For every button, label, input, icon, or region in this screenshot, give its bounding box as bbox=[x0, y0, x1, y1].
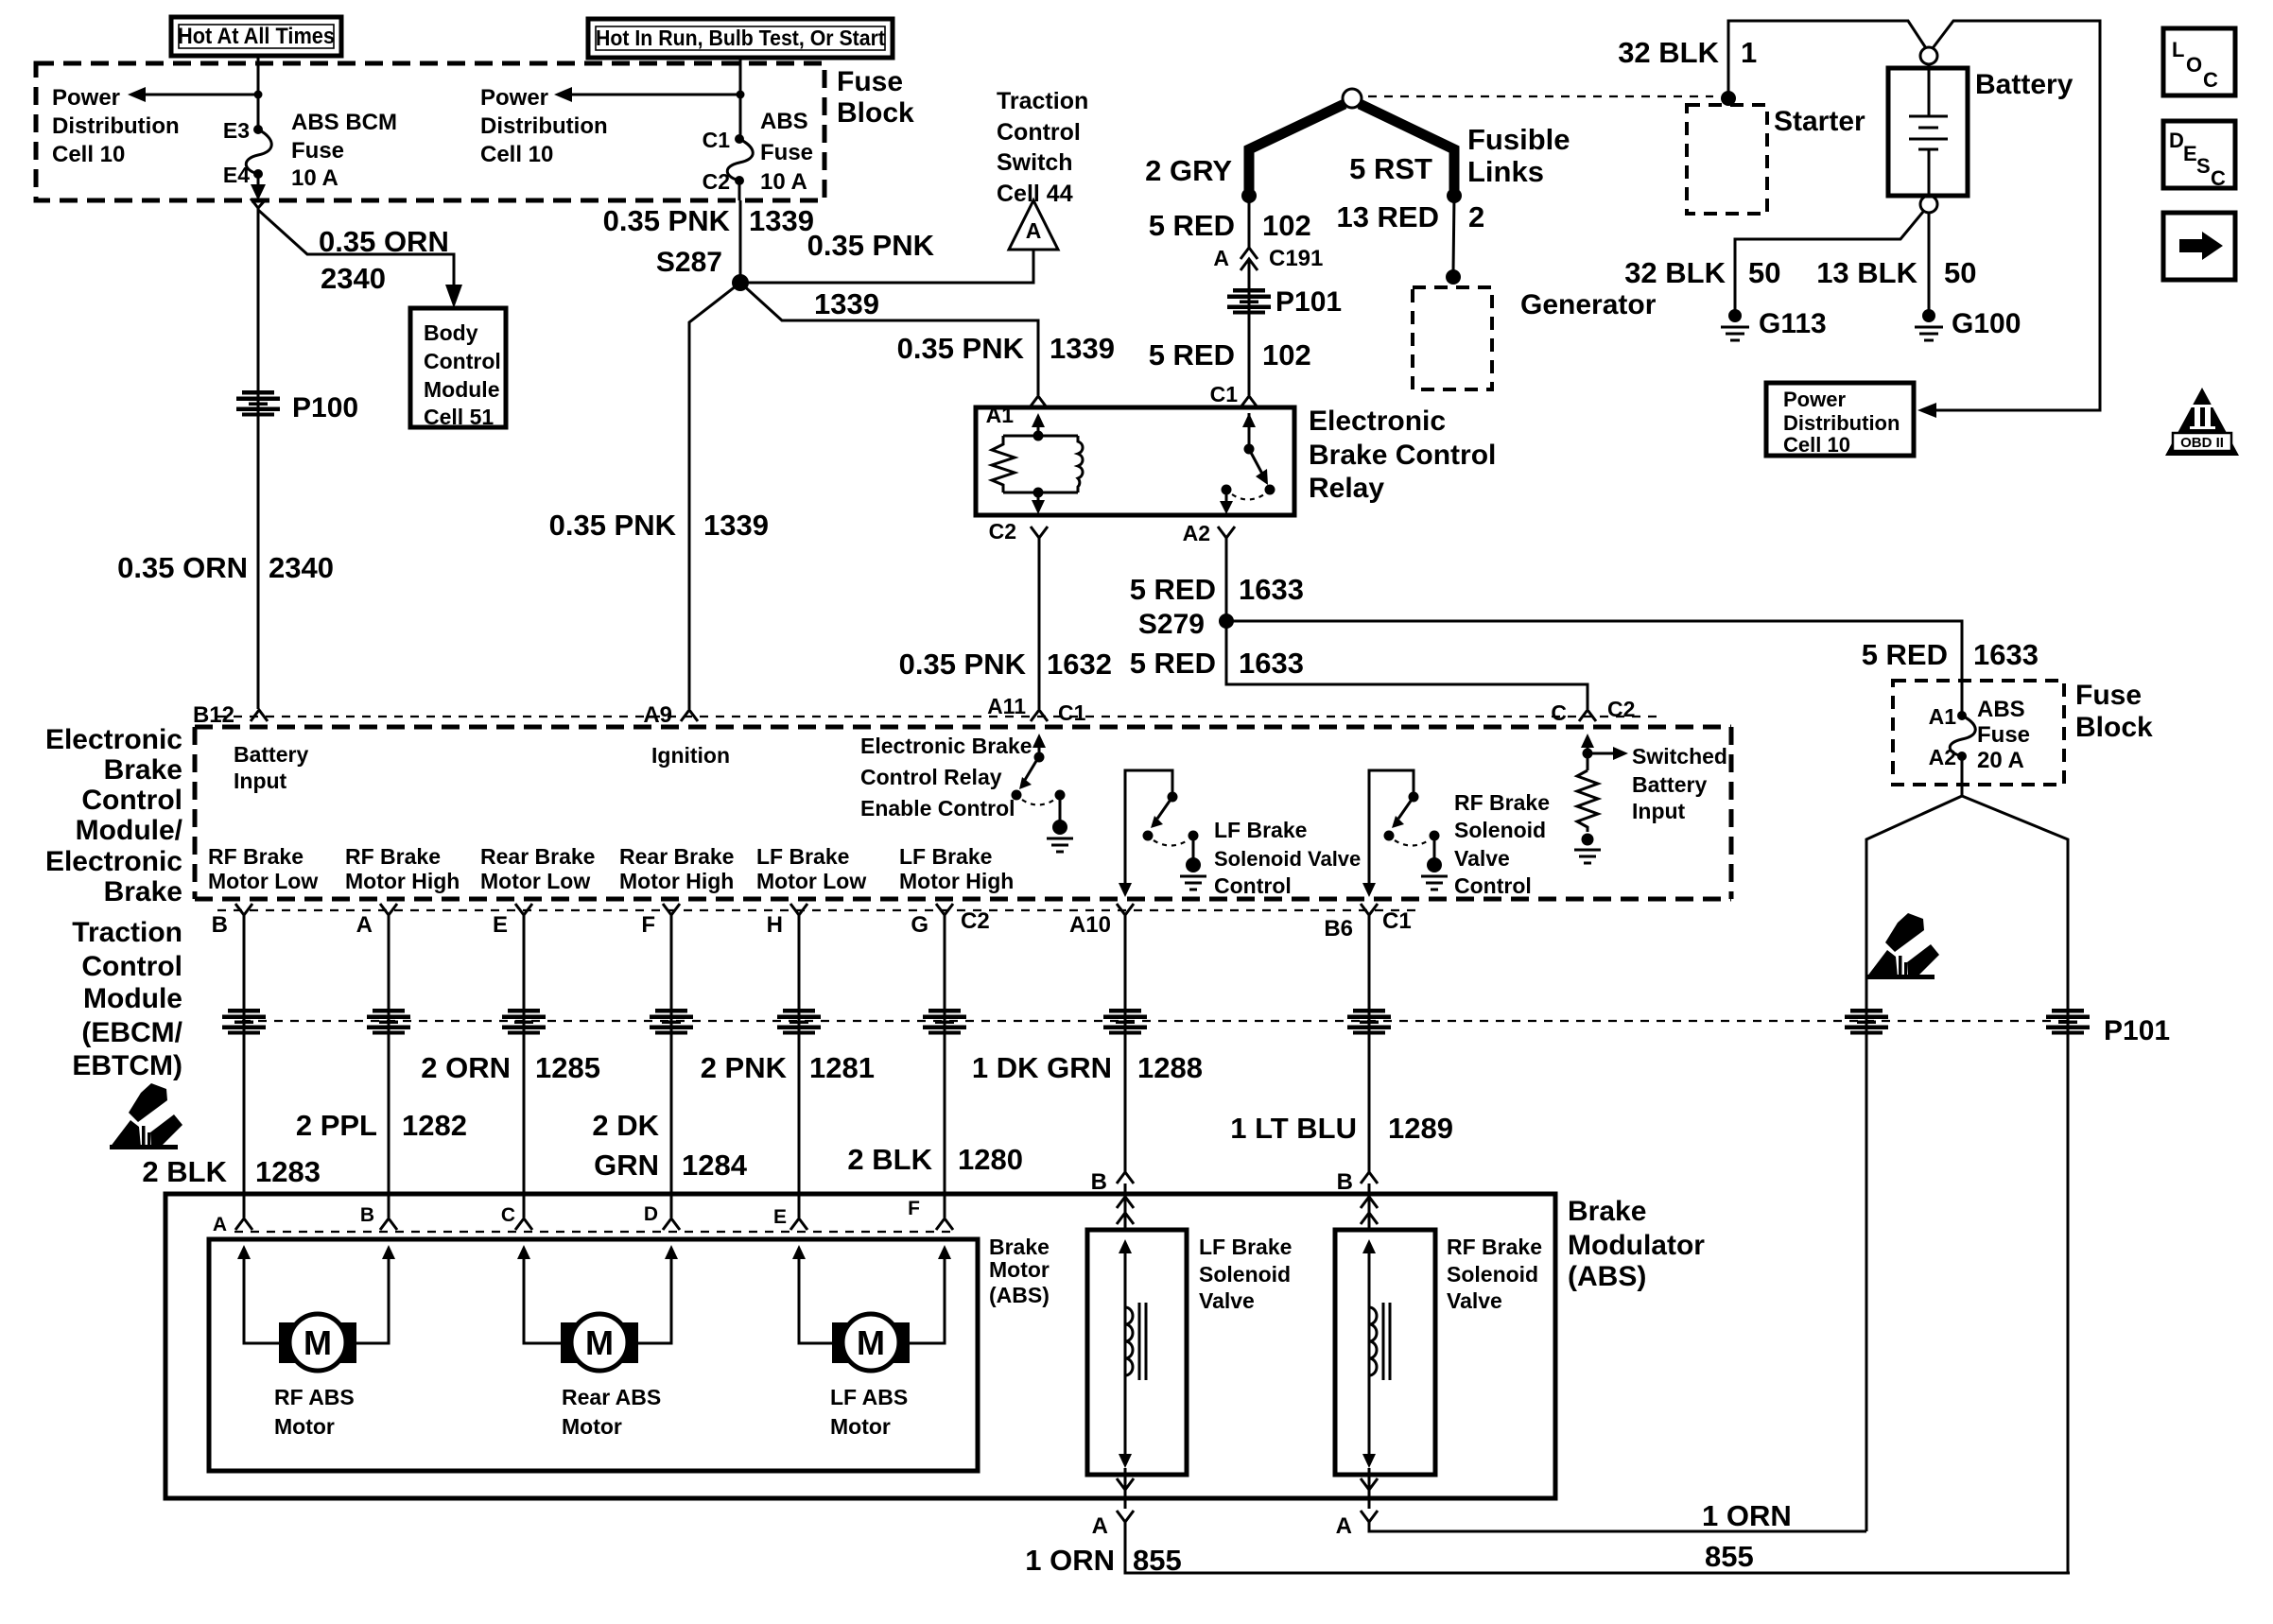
svg-text:G: G bbox=[911, 912, 928, 938]
svg-text:S: S bbox=[2196, 154, 2211, 178]
svg-text:S287: S287 bbox=[656, 247, 722, 278]
svg-text:Motor: Motor bbox=[830, 1414, 891, 1439]
svg-text:A1: A1 bbox=[1929, 704, 1957, 729]
svg-text:Solenoid Valve: Solenoid Valve bbox=[1214, 847, 1361, 871]
svg-text:Motor Low: Motor Low bbox=[480, 869, 590, 893]
svg-text:5 RED: 5 RED bbox=[1149, 338, 1235, 371]
svg-text:50: 50 bbox=[1944, 256, 1976, 289]
svg-text:B: B bbox=[1091, 1169, 1107, 1195]
svg-text:A: A bbox=[1336, 1513, 1352, 1539]
svg-text:OBD II: OBD II bbox=[2180, 435, 2224, 451]
svg-text:1339: 1339 bbox=[1050, 332, 1115, 365]
svg-text:S279: S279 bbox=[1138, 609, 1205, 640]
svg-text:Motor Low: Motor Low bbox=[208, 869, 318, 893]
svg-text:Electronic: Electronic bbox=[45, 724, 182, 755]
svg-text:Switch: Switch bbox=[997, 149, 1073, 176]
svg-text:Fuse: Fuse bbox=[760, 140, 813, 165]
svg-text:Traction: Traction bbox=[72, 917, 182, 948]
svg-text:Control: Control bbox=[997, 119, 1081, 146]
svg-text:1633: 1633 bbox=[1239, 573, 1304, 606]
svg-text:C: C bbox=[1551, 700, 1567, 725]
svg-text:C: C bbox=[501, 1204, 515, 1226]
svg-text:Rear Brake: Rear Brake bbox=[480, 844, 595, 869]
svg-text:0.35 PNK: 0.35 PNK bbox=[549, 509, 677, 542]
svg-text:Fuse: Fuse bbox=[291, 138, 344, 164]
svg-text:F: F bbox=[641, 912, 655, 938]
svg-text:Cell 51: Cell 51 bbox=[424, 405, 494, 429]
svg-text:5 RED: 5 RED bbox=[1149, 209, 1235, 242]
svg-text:1285: 1285 bbox=[535, 1051, 600, 1084]
svg-text:C2: C2 bbox=[703, 169, 730, 194]
svg-text:2 BLK: 2 BLK bbox=[847, 1143, 932, 1176]
svg-text:2 PNK: 2 PNK bbox=[701, 1051, 788, 1084]
svg-text:10 A: 10 A bbox=[760, 169, 807, 195]
svg-text:RF Brake: RF Brake bbox=[208, 844, 304, 869]
svg-text:0.35 PNK: 0.35 PNK bbox=[897, 332, 1025, 365]
svg-text:2 PPL: 2 PPL bbox=[296, 1109, 377, 1142]
svg-text:(ABS): (ABS) bbox=[989, 1283, 1050, 1307]
svg-text:Control Relay: Control Relay bbox=[860, 765, 1002, 789]
svg-text:(ABS): (ABS) bbox=[1568, 1261, 1646, 1292]
svg-text:C191: C191 bbox=[1269, 246, 1323, 271]
svg-text:Valve: Valve bbox=[1454, 846, 1510, 871]
svg-text:A9: A9 bbox=[643, 702, 672, 728]
svg-text:A: A bbox=[1213, 246, 1229, 270]
svg-text:Valve: Valve bbox=[1199, 1288, 1255, 1313]
svg-text:32 BLK: 32 BLK bbox=[1624, 256, 1726, 289]
svg-text:Hot At All Times: Hot At All Times bbox=[178, 24, 335, 49]
svg-text:C1: C1 bbox=[703, 128, 731, 152]
svg-text:1339: 1339 bbox=[703, 509, 769, 542]
svg-text:Control: Control bbox=[1454, 873, 1532, 898]
svg-text:Valve: Valve bbox=[1447, 1288, 1502, 1313]
svg-text:102: 102 bbox=[1262, 338, 1311, 371]
svg-text:(EBCM/: (EBCM/ bbox=[81, 1017, 182, 1048]
svg-text:Module: Module bbox=[83, 983, 182, 1014]
svg-text:O: O bbox=[2186, 53, 2202, 77]
svg-text:Body: Body bbox=[424, 320, 478, 345]
svg-text:1281: 1281 bbox=[809, 1051, 875, 1084]
svg-text:Ignition: Ignition bbox=[651, 743, 730, 768]
svg-text:Links: Links bbox=[1467, 155, 1544, 188]
svg-text:C1: C1 bbox=[1382, 908, 1412, 934]
svg-text:Motor High: Motor High bbox=[619, 869, 734, 893]
svg-text:LF Brake: LF Brake bbox=[756, 844, 849, 869]
svg-text:Control: Control bbox=[81, 951, 182, 982]
svg-text:0.35 PNK: 0.35 PNK bbox=[603, 204, 731, 237]
svg-text:C2: C2 bbox=[989, 519, 1016, 544]
svg-text:Solenoid: Solenoid bbox=[1199, 1262, 1291, 1287]
svg-text:1288: 1288 bbox=[1137, 1051, 1203, 1084]
svg-text:1 LT BLU: 1 LT BLU bbox=[1230, 1112, 1357, 1145]
svg-text:M: M bbox=[304, 1323, 332, 1362]
svg-text:Brake: Brake bbox=[989, 1235, 1050, 1259]
svg-text:C: C bbox=[2211, 166, 2226, 190]
svg-text:Motor: Motor bbox=[562, 1414, 622, 1439]
svg-text:1633: 1633 bbox=[1239, 647, 1304, 680]
svg-text:0.35 ORN: 0.35 ORN bbox=[117, 551, 248, 584]
svg-text:10 A: 10 A bbox=[291, 165, 338, 191]
svg-text:1280: 1280 bbox=[958, 1143, 1023, 1176]
svg-text:D: D bbox=[644, 1203, 658, 1225]
svg-text:RF Brake: RF Brake bbox=[1447, 1235, 1542, 1259]
svg-text:Input: Input bbox=[234, 769, 287, 793]
svg-text:0.35 PNK: 0.35 PNK bbox=[899, 648, 1027, 681]
svg-text:Power: Power bbox=[480, 85, 548, 111]
svg-text:E: E bbox=[773, 1206, 787, 1228]
svg-text:Motor High: Motor High bbox=[899, 869, 1014, 893]
svg-text:Fusible: Fusible bbox=[1467, 123, 1570, 156]
svg-text:Power: Power bbox=[1783, 388, 1846, 411]
svg-text:1339: 1339 bbox=[749, 204, 814, 237]
svg-text:Electronic: Electronic bbox=[45, 846, 182, 877]
svg-text:RF Brake: RF Brake bbox=[1454, 790, 1550, 815]
svg-text:Distribution: Distribution bbox=[480, 113, 608, 139]
svg-text:Modulator: Modulator bbox=[1568, 1230, 1705, 1261]
svg-text:Solenoid: Solenoid bbox=[1454, 818, 1546, 842]
svg-text:Starter: Starter bbox=[1774, 106, 1865, 137]
svg-text:Rear Brake: Rear Brake bbox=[619, 844, 734, 869]
svg-text:P101: P101 bbox=[2104, 1015, 2170, 1046]
svg-text:E: E bbox=[2183, 142, 2197, 165]
svg-text:Generator: Generator bbox=[1520, 289, 1657, 320]
svg-text:L: L bbox=[2172, 38, 2184, 61]
svg-text:Relay: Relay bbox=[1309, 473, 1384, 504]
svg-text:0.35 ORN: 0.35 ORN bbox=[319, 225, 449, 258]
svg-text:2 DK: 2 DK bbox=[592, 1109, 659, 1142]
svg-text:102: 102 bbox=[1262, 209, 1311, 242]
svg-text:Battery: Battery bbox=[234, 742, 308, 767]
svg-text:Power: Power bbox=[52, 85, 120, 111]
svg-text:Brake: Brake bbox=[1568, 1196, 1646, 1227]
svg-text:D: D bbox=[2169, 129, 2184, 152]
svg-text:1339: 1339 bbox=[814, 287, 879, 320]
svg-text:13 BLK: 13 BLK bbox=[1816, 256, 1917, 289]
svg-text:A: A bbox=[1026, 218, 1042, 243]
svg-text:Control: Control bbox=[424, 349, 501, 373]
svg-text:LF ABS: LF ABS bbox=[830, 1385, 908, 1409]
svg-text:Module/: Module/ bbox=[76, 815, 183, 846]
svg-text:Cell 44: Cell 44 bbox=[997, 181, 1073, 207]
svg-text:Fuse: Fuse bbox=[837, 66, 903, 97]
svg-text:B: B bbox=[360, 1204, 374, 1226]
svg-text:20 A: 20 A bbox=[1977, 748, 2024, 773]
svg-text:LF Brake: LF Brake bbox=[1199, 1235, 1292, 1259]
svg-text:Cell 10: Cell 10 bbox=[480, 142, 553, 167]
svg-text:Block: Block bbox=[2075, 712, 2153, 743]
svg-text:2 GRY: 2 GRY bbox=[1145, 154, 1232, 187]
svg-text:Distribution: Distribution bbox=[52, 113, 180, 139]
svg-text:1283: 1283 bbox=[255, 1155, 321, 1188]
svg-text:B12: B12 bbox=[193, 702, 234, 728]
svg-text:Fuse: Fuse bbox=[2075, 680, 2142, 711]
svg-text:P101: P101 bbox=[1275, 286, 1342, 318]
svg-text:C: C bbox=[2203, 68, 2218, 92]
svg-text:13 RED: 13 RED bbox=[1336, 200, 1439, 233]
svg-text:1282: 1282 bbox=[402, 1109, 467, 1142]
svg-text:Battery: Battery bbox=[1975, 69, 2073, 100]
svg-text:1284: 1284 bbox=[682, 1149, 748, 1182]
svg-text:A1: A1 bbox=[986, 403, 1015, 427]
svg-text:Brake: Brake bbox=[104, 876, 182, 907]
svg-text:M: M bbox=[857, 1323, 885, 1362]
svg-text:P100: P100 bbox=[292, 392, 358, 423]
svg-text:2 ORN: 2 ORN bbox=[421, 1051, 511, 1084]
svg-text:GRN: GRN bbox=[594, 1149, 659, 1182]
svg-text:1 ORN: 1 ORN bbox=[1025, 1544, 1115, 1577]
svg-text:Rear ABS: Rear ABS bbox=[562, 1385, 661, 1409]
svg-text:Cell 10: Cell 10 bbox=[52, 142, 125, 167]
svg-text:1: 1 bbox=[1741, 36, 1757, 69]
svg-text:LF Brake: LF Brake bbox=[899, 844, 992, 869]
svg-text:H: H bbox=[767, 912, 783, 938]
svg-text:RF Brake: RF Brake bbox=[345, 844, 441, 869]
svg-text:2340: 2340 bbox=[321, 262, 386, 295]
svg-text:1289: 1289 bbox=[1388, 1112, 1453, 1145]
svg-text:Switched: Switched bbox=[1632, 744, 1727, 769]
svg-text:A: A bbox=[356, 912, 373, 938]
svg-text:A11: A11 bbox=[987, 694, 1026, 718]
svg-text:5 RED: 5 RED bbox=[1862, 638, 1948, 671]
svg-text:2: 2 bbox=[1468, 200, 1484, 233]
svg-text:E3: E3 bbox=[223, 118, 250, 143]
svg-text:C1: C1 bbox=[1058, 700, 1086, 725]
svg-text:32 BLK: 32 BLK bbox=[1618, 36, 1719, 69]
svg-text:Control: Control bbox=[1214, 873, 1292, 898]
svg-text:Battery: Battery bbox=[1632, 772, 1707, 797]
svg-text:E: E bbox=[493, 912, 508, 938]
svg-text:E4: E4 bbox=[223, 163, 250, 187]
svg-text:Brake Control: Brake Control bbox=[1309, 440, 1496, 471]
svg-text:Hot In Run, Bulb Test, Or Star: Hot In Run, Bulb Test, Or Start bbox=[596, 26, 885, 50]
svg-text:Motor: Motor bbox=[274, 1414, 335, 1439]
svg-text:5 RST: 5 RST bbox=[1349, 152, 1432, 185]
svg-text:B: B bbox=[1337, 1169, 1353, 1195]
svg-text:855: 855 bbox=[1133, 1544, 1182, 1577]
svg-text:G113: G113 bbox=[1759, 308, 1827, 339]
svg-text:Cell 10: Cell 10 bbox=[1783, 433, 1850, 457]
svg-text:EBTCM): EBTCM) bbox=[72, 1050, 182, 1081]
svg-text:1633: 1633 bbox=[1973, 638, 2039, 671]
svg-text:A2: A2 bbox=[1183, 521, 1210, 545]
svg-text:Solenoid: Solenoid bbox=[1447, 1262, 1538, 1287]
svg-text:0.35 PNK: 0.35 PNK bbox=[807, 229, 935, 262]
svg-text:5 RED: 5 RED bbox=[1130, 647, 1216, 680]
svg-text:M: M bbox=[585, 1323, 614, 1362]
svg-text:Block: Block bbox=[837, 97, 914, 129]
svg-text:2 BLK: 2 BLK bbox=[142, 1155, 227, 1188]
svg-text:1632: 1632 bbox=[1047, 648, 1112, 681]
svg-text:B6: B6 bbox=[1324, 916, 1353, 942]
svg-text:1 DK GRN: 1 DK GRN bbox=[972, 1051, 1112, 1084]
svg-text:Motor High: Motor High bbox=[345, 869, 460, 893]
svg-text:A2: A2 bbox=[1929, 745, 1956, 769]
svg-text:1 ORN: 1 ORN bbox=[1702, 1499, 1792, 1532]
svg-text:ABS BCM: ABS BCM bbox=[291, 110, 397, 135]
svg-text:5 RED: 5 RED bbox=[1130, 573, 1216, 606]
svg-text:C2: C2 bbox=[961, 908, 990, 934]
svg-text:Control: Control bbox=[81, 785, 182, 816]
svg-text:Brake: Brake bbox=[104, 754, 182, 786]
svg-text:C1: C1 bbox=[1210, 382, 1239, 406]
svg-text:Motor Low: Motor Low bbox=[756, 869, 866, 893]
svg-text:G100: G100 bbox=[1952, 308, 2021, 339]
svg-text:A: A bbox=[1092, 1513, 1108, 1539]
svg-text:RF ABS: RF ABS bbox=[274, 1385, 355, 1409]
svg-text:Electronic: Electronic bbox=[1309, 406, 1446, 437]
svg-text:Enable Control: Enable Control bbox=[860, 796, 1015, 821]
svg-text:LF Brake: LF Brake bbox=[1214, 818, 1307, 842]
svg-text:A: A bbox=[213, 1214, 227, 1235]
svg-text:Traction: Traction bbox=[997, 88, 1088, 114]
svg-text:ABS: ABS bbox=[760, 109, 808, 134]
svg-text:B: B bbox=[212, 912, 228, 938]
svg-text:Distribution: Distribution bbox=[1783, 411, 1900, 435]
svg-text:F: F bbox=[908, 1198, 920, 1219]
svg-text:2340: 2340 bbox=[269, 551, 334, 584]
svg-text:855: 855 bbox=[1705, 1540, 1754, 1573]
svg-text:A10: A10 bbox=[1069, 912, 1111, 938]
svg-text:Electronic Brake: Electronic Brake bbox=[860, 734, 1032, 758]
svg-text:Motor: Motor bbox=[989, 1257, 1050, 1282]
svg-text:ABS: ABS bbox=[1977, 697, 2025, 722]
svg-text:Module: Module bbox=[424, 377, 500, 402]
svg-text:Fuse: Fuse bbox=[1977, 722, 2030, 748]
svg-text:50: 50 bbox=[1748, 256, 1780, 289]
svg-text:Input: Input bbox=[1632, 799, 1686, 823]
